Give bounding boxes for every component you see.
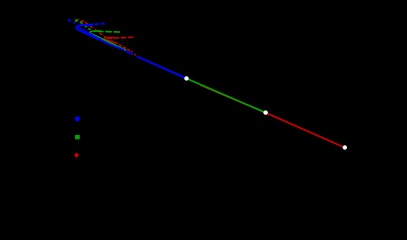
green track start marker (square) [75,19,78,22]
red track hook [104,37,118,43]
green track main line [162,68,266,113]
blue track start marker (circle) [68,19,71,22]
white endpoint dot 1 (end of blue) [184,76,188,80]
green track hook [90,31,127,51]
white endpoint dot 3 (end of red) [343,145,347,149]
blue track long dash [125,51,133,55]
green track dashed approach from marker [80,22,91,30]
blue track hook inner strand [77,27,101,40]
white endpoint dot 2 (end of green) [263,110,267,114]
blue track main solid line [137,56,187,78]
red track start marker (diamond) [81,20,84,23]
red track tiny start dot [78,19,80,21]
blue track dashed horizontal [80,24,105,26]
red track dashed diagonal descent [119,45,133,52]
red track dashed approach from marker [85,22,106,38]
blue track short dash below marker [73,22,75,23]
blue track hook (turn and outer lower branch) [76,25,124,50]
green track dashed horizontal [94,30,120,33]
red track isolated dash [134,53,136,56]
red track dashed horizontal [107,37,134,38]
legend marker blue circle [75,116,80,121]
red track main line (underneath) [200,85,345,148]
legend marker green square [75,135,80,139]
legend marker red diamond [74,153,79,158]
